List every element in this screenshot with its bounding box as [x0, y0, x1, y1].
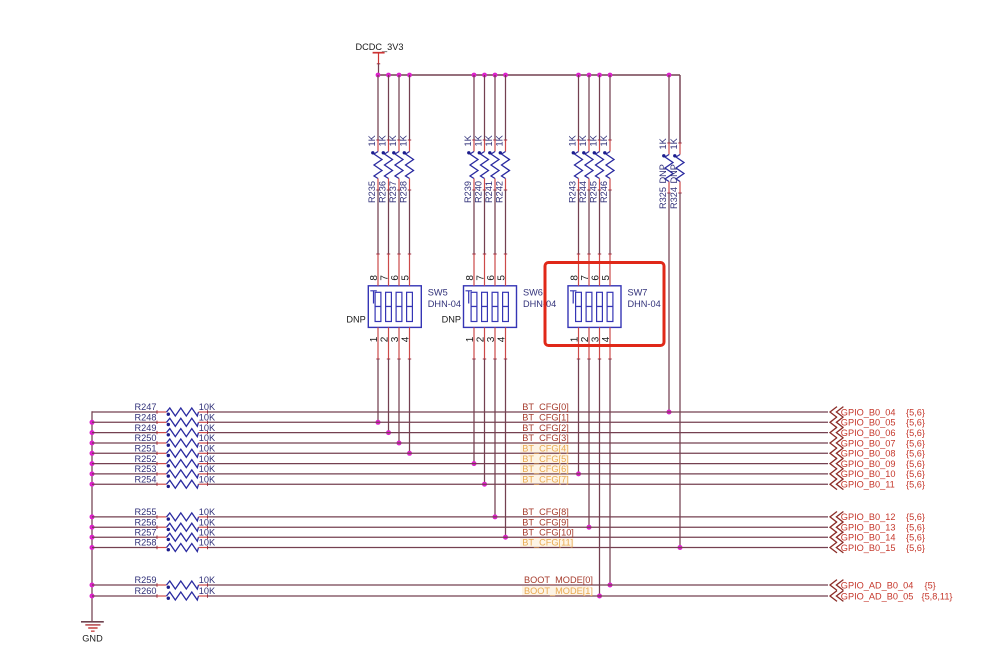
wire net BT_CFG[10]	[208, 536, 829, 538]
svg-text:BT_CFG[8]: BT_CFG[8]	[522, 507, 568, 517]
pin 1 of SW6	[465, 327, 476, 359]
wire rail to R248	[92, 421, 157, 423]
junction	[376, 420, 381, 425]
wire net BT_CFG[8]	[208, 516, 829, 518]
svg-text:1K: 1K	[377, 134, 387, 146]
net label BT_CFG[10]	[522, 527, 574, 537]
svg-text:DNP: DNP	[346, 315, 365, 325]
junction on left rail	[90, 594, 95, 599]
svg-text:{5,6}: {5,6}	[906, 438, 925, 448]
port GPIO_B0_07	[830, 438, 925, 449]
svg-text:{5,8,11}: {5,8,11}	[922, 591, 953, 601]
junction	[608, 583, 613, 588]
svg-text:DNP: DNP	[442, 315, 461, 325]
wire resistor to switch pin	[494, 190, 496, 254]
resistor R240 1K	[473, 134, 488, 203]
label highlight BT_CFG[11]	[520, 538, 573, 549]
svg-text:R240: R240	[473, 181, 483, 203]
svg-text:10K: 10K	[199, 527, 216, 537]
resistor R236 1K	[377, 134, 392, 203]
junction	[576, 471, 581, 476]
port GPIO_B0_15	[830, 542, 925, 553]
wire bus to R235	[377, 75, 379, 140]
junction	[597, 594, 602, 599]
port GPIO_AD_B0_05	[830, 591, 953, 602]
junction	[503, 535, 508, 540]
svg-text:R246: R246	[599, 181, 609, 203]
svg-text:10K: 10K	[199, 423, 216, 433]
net label BT_CFG[6]	[522, 464, 568, 474]
svg-text:10K: 10K	[199, 444, 216, 454]
wire switch pin to net row	[484, 359, 486, 484]
dip switch SW5 DHN-04	[368, 286, 421, 328]
svg-text:R235: R235	[367, 181, 377, 203]
wire switch pin to net row	[473, 359, 475, 464]
wire rail to R247	[92, 411, 157, 413]
svg-text:1K: 1K	[398, 134, 408, 146]
wire switch pin to net row	[609, 359, 611, 585]
port GPIO_AD_B0_04	[830, 580, 936, 591]
junction on left rail	[90, 420, 95, 425]
svg-text:BT_CFG[9]: BT_CFG[9]	[522, 517, 568, 527]
junction	[407, 451, 412, 456]
wire switch pin to net row	[588, 359, 590, 527]
svg-text:BT_CFG[0]: BT_CFG[0]	[522, 402, 568, 412]
svg-text:SW5: SW5	[428, 287, 448, 297]
junction	[493, 514, 498, 519]
junction on left rail	[90, 525, 95, 530]
wire left ground rail	[91, 411, 93, 621]
resistor R237 1K	[388, 134, 403, 203]
svg-text:1: 1	[569, 336, 580, 342]
wire rail to R256	[92, 526, 157, 528]
resistor R243 1K	[567, 134, 582, 203]
svg-text:10K: 10K	[199, 517, 216, 527]
svg-text:{5,6}: {5,6}	[906, 543, 925, 553]
wire net BT_CFG[6]	[208, 473, 829, 475]
svg-text:GPIO_AD_B0_05: GPIO_AD_B0_05	[841, 591, 914, 601]
resistor R260 10K	[135, 586, 216, 600]
resistor R324 1K	[669, 137, 684, 209]
svg-text:8: 8	[569, 275, 580, 281]
junction	[667, 410, 672, 415]
wire bus to R245	[599, 75, 601, 140]
svg-text:GPIO_B0_08: GPIO_B0_08	[841, 449, 896, 459]
junction on left rail	[90, 430, 95, 435]
port GPIO_B0_14	[830, 532, 925, 543]
svg-text:R325: R325	[658, 187, 668, 209]
label highlight BT_CFG[7]	[520, 474, 568, 485]
svg-text:GPIO_B0_11: GPIO_B0_11	[841, 480, 895, 490]
net label BT_CFG[9]	[522, 517, 568, 527]
svg-text:GPIO_B0_06: GPIO_B0_06	[841, 428, 896, 438]
svg-text:GPIO_B0_04: GPIO_B0_04	[841, 407, 896, 417]
svg-text:R236: R236	[377, 181, 387, 203]
svg-text:SW7: SW7	[628, 287, 648, 297]
wire bus to R242	[505, 75, 507, 140]
wire resistor to switch pin	[377, 190, 379, 254]
highlight box around SW7	[545, 263, 664, 346]
resistor R239 1K	[463, 134, 478, 203]
svg-text:R247: R247	[135, 402, 157, 412]
svg-text:BT_CFG[5]: BT_CFG[5]	[522, 454, 568, 464]
svg-text:10K: 10K	[199, 402, 216, 412]
junction on bus	[667, 73, 672, 78]
wire bus to R241	[494, 75, 496, 140]
svg-text:{5,6}: {5,6}	[906, 512, 925, 522]
wire switch pin to net row	[409, 359, 411, 453]
svg-text:10K: 10K	[199, 454, 216, 464]
resistor R256 10K	[135, 517, 216, 531]
svg-text:10K: 10K	[199, 474, 216, 484]
label highlight BT_CFG[4]	[520, 444, 568, 455]
svg-text:R258: R258	[135, 538, 157, 548]
svg-text:7: 7	[379, 275, 390, 281]
wire rail to R252	[92, 463, 157, 465]
wire power stem	[378, 64, 380, 75]
pin 3 of SW5	[390, 327, 401, 359]
DNP label SW6	[442, 315, 461, 325]
wire rail to R257	[92, 536, 157, 538]
junction on bus	[386, 73, 391, 78]
svg-text:{5,6}: {5,6}	[906, 449, 925, 459]
resistor R253 10K	[135, 464, 216, 478]
svg-text:GPIO_B0_13: GPIO_B0_13	[841, 523, 896, 533]
junction on left rail	[90, 514, 95, 519]
pin 5 of SW6	[496, 254, 507, 286]
svg-text:R251: R251	[135, 444, 157, 454]
net label BT_CFG[7]	[522, 474, 568, 484]
svg-text:1: 1	[369, 336, 380, 342]
svg-text:R239: R239	[463, 181, 473, 203]
junction on bus	[472, 73, 477, 78]
wire bus to R246	[609, 75, 611, 140]
wire net BT_CFG[5]	[208, 463, 829, 465]
wire resistor to switch pin	[588, 190, 590, 254]
resistor R246 1K	[599, 134, 614, 203]
svg-text:R250: R250	[135, 433, 157, 443]
svg-text:7: 7	[475, 275, 486, 281]
resistor R248 10K	[135, 413, 216, 427]
wire rail to R249	[92, 432, 157, 434]
wire bus to R325	[668, 75, 670, 143]
svg-text:R245: R245	[588, 181, 598, 203]
pin 8 of SW5	[369, 254, 380, 286]
svg-text:3: 3	[486, 336, 497, 342]
pin 1 of SW7	[569, 327, 580, 359]
svg-text:{5,6}: {5,6}	[906, 523, 925, 533]
svg-text:6: 6	[590, 275, 601, 281]
junction on bus	[407, 73, 412, 78]
svg-text:1K: 1K	[669, 137, 679, 149]
wire net BT_CFG[4]	[208, 452, 829, 454]
resistor R254 10K	[135, 474, 216, 488]
svg-text:R237: R237	[388, 181, 398, 203]
svg-text:R257: R257	[135, 527, 157, 537]
wire switch pin to net row	[398, 359, 400, 443]
svg-text:{5,6}: {5,6}	[906, 533, 925, 543]
svg-text:R256: R256	[135, 517, 157, 527]
svg-text:1K: 1K	[388, 134, 398, 146]
power flag DCDC_3V3	[356, 42, 404, 64]
junction	[397, 441, 402, 446]
port GPIO_B0_09	[830, 458, 925, 469]
dip switch SW7 DHN-04	[568, 286, 621, 328]
resistor R235 1K	[367, 134, 382, 203]
svg-text:1K: 1K	[473, 134, 483, 146]
wire switch pin to net row	[599, 359, 601, 596]
pin 4 of SW7	[601, 327, 612, 359]
port GPIO_B0_13	[830, 522, 925, 533]
svg-text:1: 1	[465, 336, 476, 342]
svg-text:{5,6}: {5,6}	[906, 469, 925, 479]
designator SW5	[428, 287, 461, 309]
port GPIO_B0_08	[830, 448, 925, 459]
junction on bus	[482, 73, 487, 78]
pin 3 of SW6	[486, 327, 497, 359]
svg-text:GPIO_B0_15: GPIO_B0_15	[841, 543, 896, 553]
svg-text:BT_CFG[11]: BT_CFG[11]	[522, 538, 573, 548]
svg-text:2: 2	[580, 336, 591, 342]
svg-text:R242: R242	[494, 181, 504, 203]
svg-text:GPIO_B0_10: GPIO_B0_10	[841, 469, 896, 479]
wire switch pin to net row	[377, 359, 379, 422]
junction on bus	[608, 73, 613, 78]
wire resistor to switch pin	[599, 190, 601, 254]
svg-text:GPIO_B0_12: GPIO_B0_12	[841, 512, 896, 522]
wire bus corner to R324	[679, 75, 681, 143]
pin 4 of SW5	[400, 327, 411, 359]
junction on left rail	[90, 535, 95, 540]
svg-text:GPIO_B0_05: GPIO_B0_05	[841, 418, 896, 428]
svg-text:10K: 10K	[199, 464, 216, 474]
wire resistor to switch pin	[388, 190, 390, 254]
DNP label SW5	[346, 315, 365, 325]
pin 4 of SW6	[496, 327, 507, 359]
wire rail to R258	[92, 547, 157, 549]
svg-text:BT_CFG[2]: BT_CFG[2]	[522, 423, 568, 433]
wire rail to R255	[92, 516, 157, 518]
svg-text:10K: 10K	[199, 507, 216, 517]
net label BT_CFG[4]	[522, 444, 568, 454]
svg-text:7: 7	[580, 275, 591, 281]
svg-text:5: 5	[601, 275, 612, 281]
svg-text:BOOT_MODE[1]: BOOT_MODE[1]	[524, 586, 593, 596]
wire switch pin to net row	[505, 359, 507, 537]
label highlight BOOT_MODE[1]	[522, 586, 590, 597]
svg-text:{5,6}: {5,6}	[906, 418, 925, 428]
wire resistor to switch pin	[484, 190, 486, 254]
wire switch pin to net row	[578, 359, 580, 474]
junction on left rail	[90, 451, 95, 456]
wire net BT_CFG[11]	[208, 547, 829, 549]
svg-text:BOOT_MODE[0]: BOOT_MODE[0]	[524, 575, 593, 585]
wire net BOOT_MODE[0]	[208, 584, 829, 586]
resistor R258 10K	[135, 538, 216, 552]
wire net BT_CFG[0]	[208, 411, 829, 413]
svg-text:10K: 10K	[199, 433, 216, 443]
svg-text:SW6: SW6	[523, 287, 543, 297]
wire switch pin to net row	[494, 359, 496, 517]
svg-text:4: 4	[601, 336, 612, 342]
svg-text:GND: GND	[82, 634, 103, 644]
pin 6 of SW7	[590, 254, 601, 286]
resistor R238 1K	[398, 134, 413, 203]
pin 6 of SW6	[486, 254, 497, 286]
pin 7 of SW5	[379, 254, 390, 286]
wire bus to R237	[398, 75, 400, 140]
svg-text:4: 4	[496, 336, 507, 342]
svg-text:BT_CFG[4]: BT_CFG[4]	[522, 444, 568, 454]
port GPIO_B0_10	[830, 469, 925, 480]
svg-text:1K: 1K	[484, 134, 494, 146]
wire DNP resistor to net row	[668, 193, 670, 412]
wire rail to R254	[92, 483, 157, 485]
junction on bus	[597, 73, 602, 78]
svg-text:R244: R244	[578, 181, 588, 203]
svg-text:3: 3	[390, 336, 401, 342]
svg-text:{5,6}: {5,6}	[906, 428, 925, 438]
wire bus to R238	[409, 75, 411, 140]
label highlight BT_CFG[5]	[520, 454, 568, 465]
junction	[482, 482, 487, 487]
resistor R252 10K	[135, 454, 216, 468]
wire resistor to switch pin	[409, 190, 411, 254]
wire resistor to switch pin	[398, 190, 400, 254]
svg-text:DCDC_3V3: DCDC_3V3	[356, 42, 404, 52]
wire bus to R244	[588, 75, 590, 140]
svg-text:DNP: DNP	[669, 164, 679, 183]
junction	[678, 545, 683, 550]
resistor R250 10K	[135, 433, 216, 447]
net label BT_CFG[8]	[522, 507, 568, 517]
wire DNP resistor to net row	[679, 193, 681, 548]
wire net BT_CFG[9]	[208, 526, 829, 528]
svg-text:{5,6}: {5,6}	[906, 407, 925, 417]
svg-text:R253: R253	[135, 464, 157, 474]
resistor R325 1K	[658, 137, 673, 209]
junction on left rail	[90, 583, 95, 588]
junction	[587, 525, 592, 530]
svg-text:GPIO_B0_09: GPIO_B0_09	[841, 459, 896, 469]
designator SW7	[628, 287, 661, 309]
svg-text:6: 6	[486, 275, 497, 281]
wire bus to R240	[484, 75, 486, 140]
junction	[472, 461, 477, 466]
resistor R242 1K	[494, 134, 509, 203]
wire bus to R239	[473, 75, 475, 140]
svg-text:R248: R248	[135, 413, 157, 423]
pin 2 of SW5	[379, 327, 390, 359]
wire net BT_CFG[2]	[208, 432, 829, 434]
svg-text:BT_CFG[10]: BT_CFG[10]	[522, 527, 574, 537]
svg-text:1K: 1K	[367, 134, 377, 146]
svg-text:R324: R324	[669, 187, 679, 209]
junction on left rail	[90, 461, 95, 466]
wire bus to R243	[578, 75, 580, 140]
svg-text:2: 2	[475, 336, 486, 342]
wire net BT_CFG[1]	[208, 421, 829, 423]
net label BT_CFG[2]	[522, 423, 568, 433]
svg-text:DHN-04: DHN-04	[523, 299, 556, 309]
wire 3V3 bus	[377, 74, 680, 76]
svg-text:{5,6}: {5,6}	[906, 480, 925, 490]
resistor R249 10K	[135, 423, 216, 437]
junction on left rail	[90, 441, 95, 446]
port GPIO_B0_04	[830, 407, 925, 418]
svg-text:1K: 1K	[599, 134, 609, 146]
junction on bus	[376, 73, 381, 78]
wire rail to R259	[92, 584, 157, 586]
wire resistor to switch pin	[505, 190, 507, 254]
junction on bus	[493, 73, 498, 78]
svg-text:BT_CFG[6]: BT_CFG[6]	[522, 464, 568, 474]
net label BT_CFG[5]	[522, 454, 568, 464]
svg-text:R238: R238	[398, 181, 408, 203]
svg-text:R260: R260	[135, 586, 157, 596]
pin 2 of SW7	[580, 327, 591, 359]
svg-text:BT_CFG[1]: BT_CFG[1]	[522, 413, 568, 423]
pin 7 of SW7	[580, 254, 591, 286]
dip switch SW6 DHN-04	[464, 286, 517, 328]
svg-text:1K: 1K	[463, 134, 473, 146]
svg-text:DNP: DNP	[658, 164, 668, 183]
pin 5 of SW5	[400, 254, 411, 286]
svg-text:DHN-04: DHN-04	[628, 299, 661, 309]
svg-text:1K: 1K	[658, 137, 668, 149]
pin 8 of SW6	[465, 254, 476, 286]
pin 1 of SW5	[369, 327, 380, 359]
svg-text:1K: 1K	[588, 134, 598, 146]
svg-text:1K: 1K	[494, 134, 504, 146]
resistor R257 10K	[135, 527, 216, 541]
svg-text:R241: R241	[484, 181, 494, 203]
svg-text:{5,6}: {5,6}	[906, 459, 925, 469]
svg-text:6: 6	[390, 275, 401, 281]
svg-text:R252: R252	[135, 454, 157, 464]
wire rail to R250	[92, 442, 157, 444]
pin 8 of SW7	[569, 254, 580, 286]
svg-text:5: 5	[496, 275, 507, 281]
pin 5 of SW7	[601, 254, 612, 286]
svg-text:R254: R254	[135, 474, 157, 484]
svg-text:R249: R249	[135, 423, 157, 433]
net label BOOT_MODE[1]	[524, 586, 593, 596]
svg-text:1K: 1K	[578, 134, 588, 146]
net label BT_CFG[0]	[522, 402, 568, 412]
svg-text:8: 8	[465, 275, 476, 281]
svg-text:5: 5	[400, 275, 411, 281]
net label BT_CFG[11]	[522, 538, 573, 548]
wire net BT_CFG[3]	[208, 442, 829, 444]
junction on left rail	[90, 471, 95, 476]
svg-text:10K: 10K	[199, 538, 216, 548]
wire net BT_CFG[7]	[208, 483, 829, 485]
net label BOOT_MODE[0]	[524, 575, 593, 585]
svg-text:R255: R255	[135, 507, 157, 517]
port GPIO_B0_11	[830, 479, 925, 490]
svg-text:R259: R259	[135, 575, 157, 585]
wire rail to R253	[92, 473, 157, 475]
resistor R244 1K	[578, 134, 593, 203]
junction on left rail	[90, 482, 95, 487]
resistor R247 10K	[135, 402, 216, 416]
wire resistor to switch pin	[473, 190, 475, 254]
wire bus to R324	[679, 75, 681, 143]
svg-text:DHN-04: DHN-04	[428, 299, 461, 309]
wire rail to R260	[92, 595, 157, 597]
wire resistor to switch pin	[578, 190, 580, 254]
